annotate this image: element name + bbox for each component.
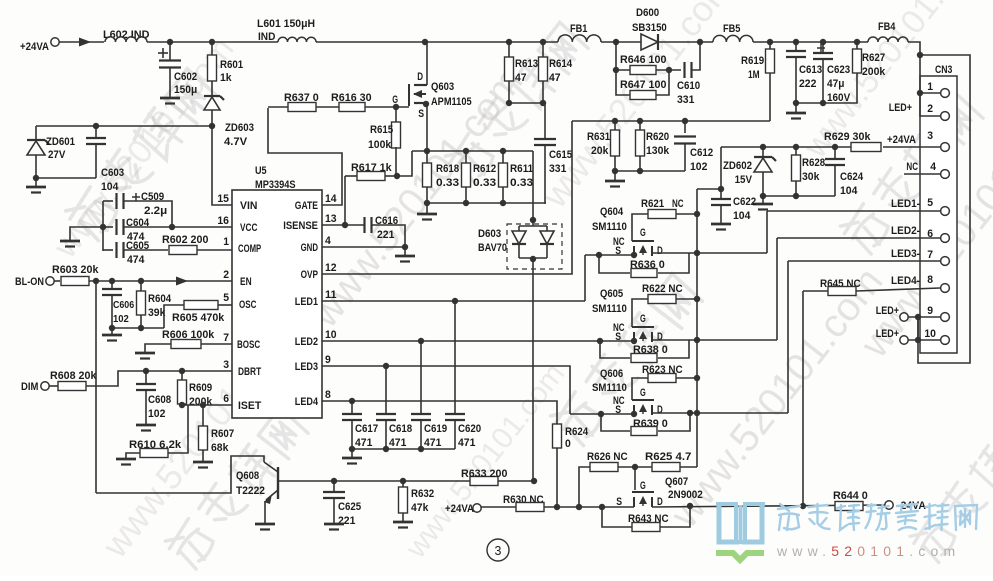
wire (352, 448, 455, 450)
wire LED2- bus (776, 238, 778, 340)
svg-text:FB5: FB5 (723, 23, 740, 35)
svg-text:D: D (657, 404, 663, 416)
wire (601, 41, 641, 43)
wire (721, 146, 851, 148)
wire EN (89, 280, 232, 282)
svg-text:104: 104 (733, 210, 751, 222)
connector CN3 (920, 76, 957, 353)
ground (193, 461, 213, 464)
svg-text:COMP: COMP (238, 243, 261, 255)
svg-text:R616 30: R616 30 (331, 92, 372, 104)
svg-text:4: 4 (325, 235, 332, 247)
svg-text:10: 10 (924, 328, 936, 340)
svg-text:3: 3 (223, 359, 229, 371)
capacitor C625 (333, 481, 335, 492)
svg-text:130k: 130k (646, 145, 670, 157)
svg-text:R613: R613 (515, 58, 538, 70)
svg-text:NC: NC (672, 198, 684, 210)
svg-text:8: 8 (927, 274, 933, 286)
ground (145, 344, 171, 352)
svg-text:27V: 27V (48, 149, 66, 161)
svg-text:7: 7 (927, 249, 933, 261)
wire (658, 41, 713, 43)
wire (680, 466, 697, 468)
svg-text:R605 470k: R605 470k (172, 312, 225, 324)
wire LED1 jog (584, 255, 586, 301)
svg-text:471: 471 (424, 437, 441, 449)
capacitor C620 (454, 301, 456, 414)
ground (351, 449, 353, 457)
ground (35, 178, 37, 186)
resistor R633 (470, 477, 498, 486)
wire drain row Q605 (652, 339, 777, 341)
svg-text:R601: R601 (220, 59, 243, 71)
ground (160, 97, 180, 100)
svg-text:DIM: DIM (21, 381, 38, 393)
wire base net (278, 480, 334, 482)
resistor R607 (202, 405, 204, 426)
ground (70, 227, 103, 240)
svg-text:ZD601: ZD601 (46, 136, 75, 148)
svg-text:150μ: 150μ (174, 84, 197, 96)
svg-text:C617: C617 (355, 423, 378, 435)
svg-text:R631: R631 (587, 131, 610, 143)
capacitor C623 (817, 47, 825, 49)
wire (36, 125, 212, 127)
svg-text:3: 3 (927, 130, 933, 142)
ground (111, 328, 113, 334)
capacitor C509 (103, 200, 113, 202)
svg-text:R615: R615 (370, 124, 393, 136)
svg-text:0.33: 0.33 (510, 177, 533, 189)
wire ISENSE (322, 224, 364, 226)
capacitor C603 (95, 126, 97, 138)
svg-text:LED2: LED2 (295, 336, 318, 348)
capacitor C613 (795, 42, 797, 50)
svg-text:C605: C605 (126, 240, 149, 252)
svg-text:R632: R632 (411, 488, 434, 500)
svg-text:7: 7 (223, 332, 229, 344)
ground (614, 171, 616, 180)
svg-text:1: 1 (927, 81, 933, 93)
wire DBRT (86, 371, 232, 386)
capacitor C612 (684, 121, 686, 133)
svg-text:C602: C602 (174, 71, 197, 83)
ground (711, 223, 731, 226)
svg-text:LED+: LED+ (876, 328, 899, 340)
capacitor C610 (683, 62, 685, 78)
zener ZD601 (35, 126, 37, 139)
svg-text:Q606: Q606 (600, 368, 623, 380)
svg-text:474: 474 (127, 254, 145, 266)
svg-text:LED2-: LED2- (891, 225, 920, 237)
svg-text:R604: R604 (148, 293, 172, 305)
svg-text:SB3150: SB3150 (632, 22, 667, 34)
capacitor C605 (103, 249, 113, 251)
svg-text:Q605: Q605 (600, 288, 623, 300)
svg-text:R607: R607 (211, 428, 234, 440)
svg-text:2: 2 (927, 103, 933, 115)
svg-text:R602 200: R602 200 (162, 234, 208, 246)
wire LED1 (322, 300, 585, 302)
wire (36, 177, 96, 179)
svg-text:104: 104 (101, 181, 119, 193)
svg-text:222: 222 (799, 78, 816, 90)
wire (753, 41, 868, 43)
ground (393, 521, 413, 524)
svg-text:MP3394S: MP3394S (255, 179, 296, 191)
wire OVP divider rail (572, 120, 770, 122)
svg-text:R629 30k: R629 30k (824, 131, 871, 143)
svg-text:13: 13 (325, 213, 337, 225)
svg-text:G: G (640, 387, 646, 399)
svg-text:Q603: Q603 (431, 81, 454, 93)
svg-text:C623: C623 (827, 64, 850, 76)
wire (796, 73, 857, 103)
svg-text:4.7V: 4.7V (224, 136, 248, 148)
capacitor C616 (363, 217, 365, 233)
wire LED4- bus (802, 291, 804, 506)
svg-text:G: G (392, 94, 398, 106)
wire (218, 304, 232, 306)
wire source (426, 103, 428, 151)
svg-text:R628: R628 (802, 157, 825, 169)
svg-text:1k: 1k (220, 72, 232, 84)
resistor R616 (316, 106, 339, 108)
decor logo text (778, 504, 800, 530)
wire LED3- bus (787, 261, 789, 413)
svg-text:12: 12 (325, 262, 337, 274)
wire (397, 151, 412, 176)
svg-text:D: D (657, 331, 663, 343)
wire (498, 480, 534, 482)
resistor R632 (402, 481, 404, 488)
wire LED1- bus (766, 211, 768, 253)
svg-text:15V: 15V (735, 174, 753, 186)
svg-text:APM1105: APM1105 (431, 96, 472, 108)
svg-text:G: G (640, 313, 646, 325)
resistor R637 (268, 106, 288, 108)
capacitor C619 (420, 341, 422, 414)
wire (112, 327, 164, 329)
resistor R606 (171, 340, 201, 349)
svg-text:T2222: T2222 (236, 485, 265, 497)
svg-text:R646 100: R646 100 (620, 54, 666, 66)
wire (856, 288, 940, 291)
capacitor C606 (111, 281, 113, 289)
svg-text:R625 4.7: R625 4.7 (645, 451, 691, 463)
svg-text:ZD602: ZD602 (723, 160, 752, 172)
resistor R645 (828, 287, 856, 296)
svg-text:102: 102 (113, 314, 129, 325)
svg-text:GND: GND (301, 242, 318, 254)
ground (255, 523, 275, 526)
svg-text:47μ: 47μ (827, 78, 844, 90)
ground (136, 424, 156, 427)
svg-text:SM1110: SM1110 (592, 221, 627, 233)
wire (59, 41, 104, 43)
svg-text:ISENSE: ISENSE (283, 220, 318, 232)
wire (544, 506, 634, 508)
svg-text:LED1-: LED1- (891, 198, 920, 210)
svg-text:BAV70: BAV70 (478, 242, 507, 254)
capacitor C617 (351, 401, 353, 414)
svg-text:471: 471 (355, 437, 372, 449)
wire (697, 188, 721, 190)
wire drain (652, 505, 885, 507)
wire LED3 (322, 366, 570, 414)
node -24VA terminal (885, 501, 893, 509)
svg-text:R618: R618 (436, 163, 459, 175)
svg-text:102: 102 (148, 408, 165, 420)
capacitor C618 (385, 366, 387, 414)
svg-text:LED3: LED3 (295, 361, 318, 373)
svg-text:2N9002: 2N9002 (668, 489, 703, 501)
wire (168, 405, 188, 453)
ground (324, 523, 344, 526)
svg-text:IND: IND (258, 31, 275, 43)
svg-text:ISET: ISET (238, 400, 261, 412)
wire (692, 42, 700, 70)
svg-text:BL-ON: BL-ON (15, 276, 44, 288)
ground (404, 247, 406, 255)
svg-text:D: D (417, 71, 423, 83)
wire (147, 41, 278, 43)
svg-text:C613: C613 (799, 64, 822, 76)
decor page number (487, 539, 509, 561)
capacitor C615 (544, 103, 546, 138)
svg-text:C624: C624 (840, 171, 864, 183)
svg-text:C620: C620 (458, 423, 481, 435)
ground (795, 103, 797, 112)
svg-text:NC: NC (906, 161, 918, 173)
svg-text:47: 47 (515, 72, 527, 84)
svg-text:8: 8 (325, 389, 331, 401)
svg-text:6: 6 (223, 393, 229, 405)
svg-text:S: S (616, 496, 622, 508)
svg-text:0.33: 0.33 (436, 177, 459, 189)
svg-text:C509: C509 (141, 191, 164, 203)
wire (385, 175, 397, 177)
svg-text:Q607: Q607 (665, 476, 688, 488)
svg-text:C612: C612 (690, 147, 713, 159)
ground (426, 203, 428, 213)
wire drain row Q604 (652, 252, 767, 254)
svg-text:R622 NC: R622 NC (642, 283, 683, 295)
svg-text:R608 20k: R608 20k (50, 370, 97, 382)
wire D603 to R633 node (532, 259, 534, 481)
wire OVP (322, 121, 572, 274)
resistor R629 (851, 143, 881, 152)
capacitor C608 (145, 371, 147, 384)
wire GATE (268, 108, 342, 205)
svg-text:2.2μ: 2.2μ (144, 205, 167, 217)
svg-text:R626 NC: R626 NC (587, 451, 628, 463)
svg-text:LED4-: LED4- (891, 275, 920, 287)
svg-text:1: 1 (223, 236, 229, 248)
svg-text:www.520101.com: www.520101.com (776, 543, 960, 559)
svg-text:L601 150μH: L601 150μH (257, 18, 315, 30)
svg-text:CN3: CN3 (935, 64, 952, 76)
node LED+ bus (917, 52, 923, 58)
wire (917, 317, 919, 340)
svg-text:471: 471 (458, 437, 475, 449)
svg-text:R603 20k: R603 20k (52, 264, 99, 276)
svg-text:D600: D600 (636, 7, 659, 19)
resistor R614 (542, 42, 544, 58)
svg-text:68k: 68k (211, 442, 229, 454)
wire VIN feed (212, 126, 232, 205)
svg-text:15: 15 (217, 193, 229, 205)
svg-text:R627: R627 (862, 52, 885, 64)
svg-text:S: S (418, 108, 424, 120)
wire common drain bus (696, 189, 698, 467)
svg-text:Q608: Q608 (236, 470, 259, 482)
svg-text:SM1110: SM1110 (592, 303, 627, 315)
capacitor C624 (834, 147, 836, 158)
wire vcc rail (102, 201, 104, 251)
svg-text:SM1110: SM1110 (592, 382, 627, 394)
resistor R618 (426, 151, 428, 163)
svg-text:102: 102 (690, 161, 707, 173)
svg-text:D603: D603 (478, 228, 501, 240)
svg-text:104: 104 (840, 185, 858, 197)
svg-text:9: 9 (325, 354, 331, 366)
wire (656, 70, 669, 95)
resistor R613 (508, 42, 510, 58)
resistor R615 (395, 107, 397, 123)
svg-text:221: 221 (377, 229, 394, 241)
svg-text:20k: 20k (591, 145, 609, 157)
wire (371, 225, 405, 247)
wire (532, 151, 534, 219)
resistor R603 (54, 280, 60, 282)
svg-text:R606 100k: R606 100k (162, 329, 215, 341)
svg-text:G: G (640, 227, 646, 239)
svg-text:C622: C622 (733, 196, 756, 208)
wire LED4 (322, 401, 557, 424)
svg-text:LED1: LED1 (295, 296, 318, 308)
svg-text:R624: R624 (565, 426, 589, 438)
svg-text:0: 0 (565, 438, 571, 450)
svg-text:16: 16 (217, 215, 229, 227)
wire GND pin (322, 246, 405, 248)
wire LED2 (322, 340, 632, 342)
svg-text:G: G (640, 480, 646, 492)
svg-text:+24VA: +24VA (445, 503, 474, 515)
svg-text:FB4: FB4 (878, 21, 896, 33)
resistor R608 (49, 385, 58, 387)
svg-text:LED3-: LED3- (891, 248, 920, 260)
svg-text:Q604: Q604 (600, 206, 624, 218)
svg-text:C625: C625 (338, 501, 361, 513)
svg-text:U5: U5 (255, 165, 267, 177)
wire EN pulldown (95, 281, 97, 493)
svg-text:R644 0: R644 0 (833, 490, 868, 502)
svg-text:2: 2 (223, 269, 229, 281)
svg-text:+24VA: +24VA (887, 134, 916, 146)
svg-text:R647 100: R647 100 (620, 79, 666, 91)
zener ZD603 (211, 81, 213, 95)
svg-text:R620: R620 (646, 131, 669, 143)
svg-text:5: 5 (223, 292, 229, 304)
svg-text:9: 9 (927, 305, 933, 317)
wire (908, 42, 920, 55)
svg-text:5: 5 (927, 197, 933, 209)
wire emitter (264, 501, 266, 523)
capacitor C604 (103, 226, 113, 228)
svg-text:OSC: OSC (239, 299, 256, 311)
svg-text:0.33: 0.33 (473, 177, 496, 189)
wire (201, 343, 232, 345)
svg-text:471: 471 (389, 437, 406, 449)
svg-text:LED4: LED4 (295, 396, 319, 408)
wire source row Q604 (585, 254, 634, 256)
wire (763, 195, 835, 197)
svg-text:R611: R611 (510, 163, 533, 175)
resistor R609 (181, 371, 183, 380)
svg-text:10: 10 (325, 329, 337, 341)
wire sense bottom rail (427, 202, 546, 204)
resistor R611 (502, 151, 504, 163)
ground (116, 458, 136, 461)
svg-text:R612: R612 (473, 163, 496, 175)
svg-text:LED+: LED+ (876, 305, 899, 317)
svg-text:EN: EN (240, 276, 252, 288)
svg-text:47k: 47k (411, 502, 429, 514)
svg-text:C604: C604 (126, 217, 150, 229)
svg-text:200k: 200k (862, 66, 886, 78)
wire arrow (79, 38, 91, 47)
svg-text:OVP: OVP (301, 269, 318, 281)
decor logo book icon (719, 504, 737, 542)
resistor R601 (211, 42, 213, 56)
svg-text:R619: R619 (741, 55, 764, 67)
svg-text:100k: 100k (368, 139, 392, 151)
resistor R605 (164, 305, 184, 328)
wire (365, 106, 409, 108)
svg-text:30k: 30k (802, 171, 820, 183)
svg-text:C606: C606 (113, 300, 134, 311)
svg-text:BOSC: BOSC (237, 339, 260, 351)
wire (334, 480, 470, 482)
svg-text:D: D (657, 245, 663, 257)
svg-text:C619: C619 (424, 423, 447, 435)
svg-text:R609: R609 (189, 382, 212, 394)
wire (316, 41, 558, 43)
wire source row Q606 (LED3) (570, 413, 634, 415)
svg-text:+24VA: +24VA (20, 41, 49, 53)
wire (509, 102, 545, 104)
capacitor C622 (720, 147, 722, 189)
svg-text:DBRT: DBRT (238, 366, 261, 378)
svg-text:R614: R614 (549, 58, 573, 70)
svg-text:VCC: VCC (240, 222, 257, 234)
svg-text:R637 0: R637 0 (284, 92, 319, 104)
wire (615, 170, 685, 172)
svg-text:R621: R621 (641, 198, 664, 210)
svg-text:ZD603: ZD603 (225, 122, 254, 134)
resistor R602 (169, 246, 197, 255)
wire (197, 249, 232, 251)
wire collector (96, 456, 264, 493)
ground (762, 196, 764, 203)
svg-text:4: 4 (930, 161, 937, 173)
svg-text:C610: C610 (677, 80, 700, 92)
svg-text:FB1: FB1 (570, 23, 587, 35)
svg-text:14: 14 (325, 193, 337, 205)
svg-text:R633 200: R633 200 (461, 468, 507, 480)
